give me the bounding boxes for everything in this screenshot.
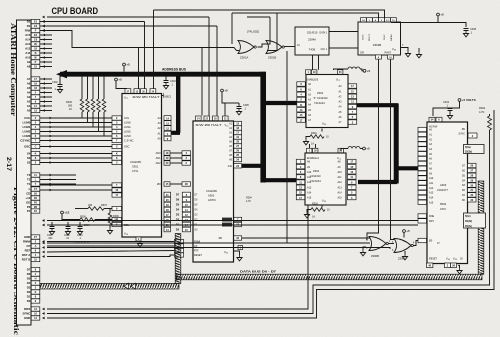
address bus vertical bar A	[260, 72, 266, 183]
ground R301	[305, 139, 307, 142]
capacitor C302	[59, 76, 61, 84]
wire phase drop to ANTIC	[208, 17, 210, 116]
CPU bottom pin boxes	[427, 263, 433, 268]
ANTIC top pin boxes	[196, 116, 202, 121]
wire O1 drop to ANTIC	[216, 26, 218, 116]
data bus vertical to CPU	[478, 181, 484, 274]
resistor R301	[321, 129, 323, 132]
CTIA lower left pins	[112, 183, 122, 187]
buffer Z302 body	[306, 75, 348, 128]
data bus right segment	[176, 274, 482, 280]
wire LUM1 to CTIA	[40, 126, 112, 128]
CTIA data pin D5	[164, 202, 171, 207]
power +5 for flip-flop	[437, 13, 440, 16]
wire PHAT output down to gate	[391, 60, 395, 240]
wire clock rail 2	[232, 13, 379, 18]
ANTIC A300 body	[193, 121, 234, 262]
wire stub R/W	[40, 30, 52, 32]
wire O2 row	[47, 21, 145, 23]
power +5 ANTIC	[221, 89, 224, 92]
wire RNMI long	[47, 220, 418, 222]
wire stub A4	[40, 92, 52, 94]
nor gate Z300B	[369, 237, 386, 251]
resistor R300-3	[92, 76, 94, 99]
wire AN0	[170, 152, 182, 154]
inductor L302 and +5	[348, 147, 360, 149]
wire T1 stub	[40, 183, 76, 185]
wire +5 volts down	[433, 102, 460, 117]
data bus left segment	[40, 283, 179, 289]
connector P300 body	[17, 20, 32, 325]
wire +5 to Z302B and C308	[391, 16, 438, 23]
buffer Z304 top pins	[307, 148, 312, 152]
wire R/W drop to CTIA	[138, 48, 140, 89]
data bus break arrows	[124, 283, 129, 289]
ANTIC data pin D7	[182, 192, 190, 197]
ANTIC data pin D2	[182, 217, 190, 222]
wire stub A1	[40, 105, 52, 107]
wire AN1	[170, 157, 182, 159]
wire OSC to CTIA	[40, 146, 112, 148]
wire O2 drop to CTIA	[144, 22, 146, 89]
power +5 stub near bus	[123, 66, 125, 72]
ground below Z302B	[418, 52, 420, 55]
wire LUM3 to CTIA	[40, 135, 112, 137]
wire stubs to Z304 top pins	[309, 144, 311, 148]
wire gate B input 2	[47, 242, 370, 244]
wire CSYNC to CTIA	[40, 140, 112, 142]
wire stub A3	[40, 96, 52, 98]
wire stub A6	[40, 83, 52, 85]
ANTIC data pin D0	[182, 227, 190, 232]
wire HALT net top rail	[154, 10, 385, 18]
ground R303	[306, 212, 308, 215]
data bus vertical from CTIA/ANTIC	[175, 234, 181, 284]
wire stub A14	[40, 39, 52, 41]
address bus stub D to Z304 enable	[263, 178, 297, 182]
ground C302	[59, 87, 61, 90]
address bus arrowhead	[56, 70, 67, 78]
wire Z300C out	[414, 241, 419, 246]
wire LUM2 to CTIA	[40, 131, 112, 133]
wire RDY long	[47, 224, 418, 226]
wire S4 to CTIA	[40, 153, 112, 155]
address bus stub from ANTIC	[242, 164, 263, 168]
ground Z300C	[404, 251, 406, 254]
CTIA data pin D6	[164, 197, 171, 202]
address bus stub to Z302 enable	[263, 101, 297, 105]
CTIA data pin D0	[164, 227, 171, 232]
buffer Z302 top pins	[306, 70, 311, 74]
ANTIC RDY pin	[222, 223, 232, 227]
flip-flop Z302B top pins	[361, 18, 367, 22]
resistor R309 300	[109, 209, 111, 214]
wire stub A0	[40, 110, 52, 112]
address bus stub F to CPU	[396, 166, 419, 170]
wire gate C input	[47, 248, 390, 250]
wire T3 stub	[40, 174, 76, 176]
buffer Z304 body	[305, 153, 346, 205]
personality connector tab lower	[464, 213, 486, 228]
wire LUM0 to CTIA	[40, 122, 112, 124]
wire clock drop to Z301A	[231, 13, 233, 44]
wire stub A11	[40, 52, 52, 54]
resistor R300-5	[103, 76, 105, 99]
wire vertical to gate Z301B in2	[267, 13, 277, 51]
wire SFNC route	[47, 133, 490, 314]
wire stub A9	[40, 61, 52, 63]
wire stub A10	[40, 57, 52, 59]
ANTIC data pin D1	[182, 222, 190, 227]
flip-flop bottom pin PHAT	[388, 55, 394, 59]
wire stub A2	[40, 101, 52, 103]
ANTIC data pin D4	[182, 207, 190, 212]
CPU phase in pin	[418, 238, 427, 242]
power +5 to CTIA Vcc	[115, 78, 118, 81]
resistor R300-1	[81, 76, 83, 99]
power +5 above bus	[123, 63, 126, 66]
wire stub A5	[40, 87, 52, 89]
address bus bar K foot	[170, 131, 180, 135]
CTIA data pin D2	[164, 217, 171, 222]
wire reset b	[47, 255, 175, 257]
wire stub A12	[40, 48, 52, 50]
ground Z300B input	[363, 247, 366, 250]
flip-flop bottom pin OR	[376, 55, 382, 59]
power +12	[61, 211, 64, 214]
address bus horizontal	[60, 72, 266, 77]
ANTIC data pin D5	[182, 202, 190, 207]
CTIA top pin boxes	[125, 89, 131, 94]
capacitor C300	[79, 222, 81, 226]
resistor R307 330	[75, 208, 88, 210]
power +5 Z300C	[403, 230, 406, 233]
capacitor C306	[67, 222, 69, 226]
wire Z300B out	[389, 243, 395, 245]
buffer Z302 left pins	[297, 82, 306, 86]
wire O1 row	[47, 25, 217, 27]
capacitor C308	[464, 29, 469, 31]
CPU top pin boxes	[429, 117, 435, 121]
wire rnmi to antic	[47, 241, 175, 243]
wire R/W drop to ANTIC	[201, 48, 203, 116]
wire END route	[47, 110, 494, 318]
wire Z301A out	[258, 44, 268, 47]
nor gate Z300C	[394, 239, 411, 253]
wire stub D2	[40, 21, 52, 23]
wire S2 to CTIA	[40, 162, 112, 164]
CTIA data pin D1	[164, 222, 171, 227]
ANTIC RNMI pin	[222, 218, 232, 222]
CPU ground	[458, 265, 460, 268]
ANTIC data pin D3	[182, 212, 190, 217]
resistor R300-4	[98, 76, 100, 99]
wire S3 to CTIA	[40, 157, 112, 159]
wire OR output down to gate	[367, 60, 379, 241]
ground for C308	[465, 31, 467, 34]
wire HALT drop to CTIA	[153, 10, 155, 89]
CTIA data pin D4	[164, 207, 171, 212]
wire stub A7	[40, 78, 52, 80]
wire COL to CTIA	[40, 117, 112, 119]
wire reset a	[47, 251, 175, 253]
CTIA data pin D3	[164, 212, 171, 217]
capacitor C305	[238, 103, 240, 106]
ANTIC data pin D6	[182, 197, 190, 202]
buffer Z304 left pins	[296, 159, 305, 163]
resistor R308 500K	[62, 214, 80, 220]
wire T2 stub	[40, 179, 76, 181]
wire R/W row	[47, 31, 239, 51]
flip-flop Z302B box	[358, 22, 401, 55]
wire phase row 1	[47, 16, 209, 18]
CTIA bottom ground	[139, 237, 141, 241]
CPU misc left pins	[418, 214, 427, 218]
wire stub A13	[40, 43, 52, 45]
address bus stub H from Z304	[358, 180, 397, 184]
CTIA data pin D7	[164, 192, 171, 197]
ground C303	[165, 83, 167, 86]
wire to Z302 enable pin	[312, 55, 314, 70]
wire cp to antic	[47, 245, 175, 247]
inductor L301 and +5	[348, 67, 360, 69]
address bus vertical bar E	[394, 104, 399, 184]
capacitor C307	[51, 222, 53, 226]
resistor R300-2	[87, 76, 89, 99]
wire vertical to gate Z301B in1	[267, 17, 270, 44]
CPU A303 body	[427, 122, 468, 264]
wire vertical W1	[47, 205, 308, 309]
nor gate Z301B	[266, 41, 282, 54]
wire long vertical x287	[286, 51, 288, 243]
capacitor C303	[165, 76, 167, 80]
buffer Z306 box	[295, 27, 329, 55]
wire stub A15	[40, 34, 52, 36]
wire stub D1	[40, 25, 52, 27]
nor gate Z301A	[238, 41, 254, 54]
power +5 VOLTS	[458, 99, 461, 102]
CPU sync pin box	[468, 133, 477, 138]
wire to Z302 enable pin 19	[318, 55, 320, 70]
resistor R303	[321, 205, 323, 208]
address bus stub G from Z302	[356, 103, 398, 107]
wire Z301B out	[285, 46, 296, 48]
CPU left pins	[418, 127, 427, 131]
wire stub A8	[40, 66, 52, 68]
address bus bar K to CTIA	[176, 75, 180, 133]
ANTIC control pins	[175, 239, 184, 243]
wire Z306 to Z302B	[329, 31, 358, 33]
wire AN2	[170, 162, 182, 164]
CTIA X301 body	[122, 94, 162, 238]
personality connector tab upper	[464, 145, 485, 154]
wire antic phase to gate	[242, 237, 370, 239]
